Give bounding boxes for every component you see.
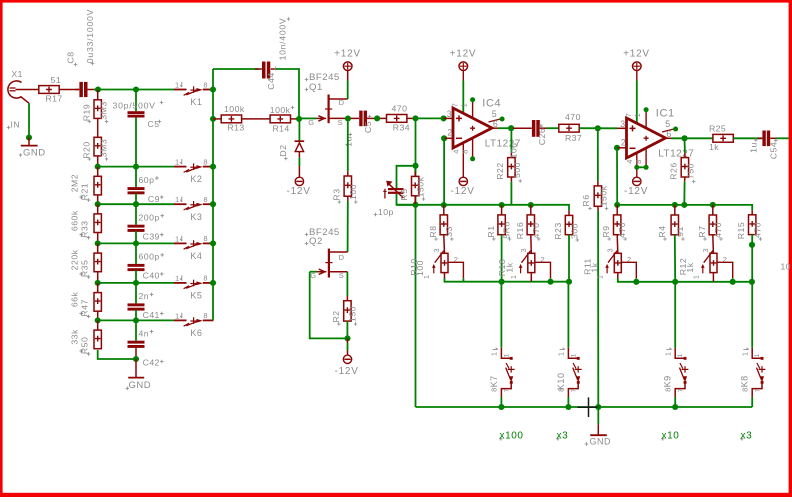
svg-text:8: 8: [203, 311, 207, 320]
svg-text:R19: R19: [81, 104, 91, 121]
svg-text:150: 150: [348, 306, 358, 322]
svg-text:8: 8: [490, 388, 499, 392]
resistor R6 150k: [597, 128, 599, 181]
svg-text:R25: R25: [709, 123, 726, 133]
wire cap to R34: [373, 117, 387, 119]
relay contact K9: [675, 348, 685, 359]
svg-text:8: 8: [203, 195, 207, 204]
relay contact K6: [174, 319, 187, 321]
wire attenuator bus vertical: [212, 69, 214, 320]
junction: [633, 279, 639, 285]
resistor R20 3M3: [97, 118, 99, 137]
wire R10 wiper: [448, 262, 463, 278]
junction: [499, 279, 505, 285]
IC1 pin8 link: [645, 148, 647, 167]
svg-text:C26: C26: [537, 128, 547, 145]
svg-text:100k: 100k: [270, 105, 291, 115]
svg-text:60p: 60p: [139, 175, 155, 185]
svg-text:470: 470: [752, 222, 762, 238]
resistor R5 150k: [414, 166, 416, 172]
svg-text:C5: C5: [363, 121, 373, 133]
wire branch to K9: [674, 282, 676, 348]
junction: [749, 242, 755, 248]
wire R25 to C54: [733, 137, 762, 139]
supply -12V (D2): [295, 177, 303, 185]
svg-text:Q2: Q2: [309, 236, 323, 247]
svg-text:7: 7: [504, 388, 511, 392]
svg-text:100: 100: [415, 260, 425, 276]
wire R37 to IC1: [579, 127, 617, 129]
svg-text:C5: C5: [148, 119, 160, 129]
svg-text:10: 10: [781, 262, 791, 272]
svg-text:R50: R50: [80, 337, 90, 354]
svg-text:R2: R2: [331, 310, 341, 322]
svg-text:IN: IN: [11, 120, 21, 130]
svg-text:8: 8: [634, 160, 643, 164]
svg-text:7: 7: [450, 103, 459, 107]
svg-text:30p/500V: 30p/500V: [113, 101, 156, 111]
junction: [441, 202, 447, 208]
junction: [498, 404, 504, 410]
junction: [133, 356, 139, 362]
IC4 pin8 stub: [472, 138, 474, 159]
wire feedback bus right: [617, 205, 752, 210]
svg-text:1: 1: [557, 352, 566, 356]
junction: [412, 115, 418, 121]
junction: [634, 165, 639, 170]
svg-text:470: 470: [392, 104, 408, 114]
svg-text:4: 4: [451, 150, 460, 154]
wire R9 to R11: [616, 235, 619, 254]
svg-text:R6: R6: [581, 194, 591, 206]
resistor R17 51: [39, 86, 59, 94]
wire node to trimmer network: [415, 118, 417, 407]
svg-text:100k: 100k: [224, 104, 245, 114]
svg-text:R47: R47: [80, 299, 90, 316]
capacitor C5 1u coupling: [351, 117, 360, 119]
svg-text:D2: D2: [278, 144, 288, 156]
wire IC4 -12V: [462, 143, 464, 177]
svg-text:150k: 150k: [416, 176, 426, 197]
junction R22 top: [508, 125, 514, 131]
svg-text:C8: C8: [66, 51, 76, 63]
wire trimcap bottom: [397, 194, 416, 205]
svg-text:K1: K1: [190, 97, 202, 107]
junction: [730, 279, 736, 285]
relay contact K1: [174, 89, 187, 91]
svg-text:1: 1: [175, 158, 179, 167]
wire R16 to R18: [530, 235, 533, 254]
label x100: [499, 437, 503, 441]
svg-text:470: 470: [713, 222, 723, 238]
svg-text:R17: R17: [46, 94, 63, 104]
svg-text:8: 8: [203, 274, 207, 283]
svg-text:8: 8: [460, 150, 469, 154]
wire R12 wiper: [717, 262, 733, 278]
svg-text:8: 8: [740, 388, 749, 392]
svg-text:1: 1: [598, 275, 605, 279]
relay contact K8: [752, 348, 762, 359]
capacitor C8 0u33/1000V: [59, 89, 79, 91]
svg-text:C39: C39: [143, 232, 160, 242]
svg-text:C40: C40: [143, 271, 160, 281]
svg-text:8: 8: [203, 157, 207, 166]
supply -12V (Q2): [343, 355, 351, 363]
svg-text:x10: x10: [662, 431, 680, 442]
transistor Q1 BF245: [328, 95, 330, 124]
wire top attenuator row: [98, 89, 174, 91]
svg-text:470: 470: [531, 223, 541, 239]
svg-text:5: 5: [665, 119, 670, 129]
resistor R47 66k: [97, 283, 99, 293]
svg-text:1: 1: [663, 352, 672, 356]
junction: [565, 404, 571, 410]
svg-text:R7: R7: [697, 225, 707, 237]
svg-text:-12V: -12V: [287, 186, 311, 197]
resistor R1 5R6: [501, 205, 503, 215]
relay contact K3: [174, 203, 187, 205]
trimmer R18 1k: [528, 253, 535, 272]
junction: [95, 280, 101, 286]
junction IC4 pin3: [441, 115, 447, 121]
svg-text:33: 33: [444, 226, 454, 237]
wire R11 bottom to segment: [617, 273, 619, 278]
wire row K4: [98, 242, 174, 244]
svg-text:G: G: [308, 118, 314, 127]
trimmer capacitor 10p: [388, 188, 404, 190]
resistor R25 1k: [713, 134, 733, 142]
resistor R15 470: [751, 210, 753, 215]
junction: [614, 202, 620, 208]
op-amp IC4 LT1227: [453, 108, 492, 148]
svg-text:1: 1: [740, 352, 749, 356]
wire R34 to IC4 +input: [407, 117, 416, 119]
diode D2: [298, 119, 300, 141]
label x10: [661, 437, 665, 441]
svg-text:7: 7: [678, 388, 685, 392]
junction: [412, 202, 418, 208]
svg-text:1: 1: [175, 195, 179, 204]
svg-text:R9: R9: [601, 225, 611, 237]
junction: [210, 164, 216, 170]
wire R14 to node: [291, 118, 300, 120]
junction IC1 pin2: [614, 145, 620, 151]
svg-text:GND: GND: [23, 148, 46, 159]
wire bottom ground bus: [416, 406, 753, 408]
wire IC1 output: [666, 137, 672, 139]
junction: [672, 404, 678, 410]
svg-text:51: 51: [51, 75, 62, 85]
wire R7 to R12: [712, 235, 715, 254]
label x3 right: [740, 437, 744, 441]
svg-text:C41: C41: [143, 310, 160, 320]
svg-text:2M2: 2M2: [70, 174, 80, 192]
svg-text:-12V: -12V: [624, 186, 648, 197]
svg-text:R26: R26: [669, 162, 679, 179]
junction IC4 pin2: [441, 135, 447, 141]
wire IC1 pin3: [617, 127, 627, 129]
resistor R7 470: [712, 205, 714, 215]
svg-text:R20: R20: [81, 141, 91, 158]
svg-text:1k: 1k: [589, 262, 599, 272]
svg-text:0u33/1000V: 0u33/1000V: [85, 9, 95, 63]
svg-text:2: 2: [447, 128, 452, 138]
svg-text:3: 3: [521, 248, 528, 252]
svg-text:1: 1: [754, 353, 761, 357]
svg-text:R33: R33: [80, 220, 90, 237]
svg-text:-12V: -12V: [335, 366, 359, 377]
svg-text:D: D: [339, 98, 345, 107]
svg-text:x3: x3: [557, 431, 569, 442]
junction: [595, 404, 601, 410]
svg-text:66k: 66k: [70, 291, 80, 307]
ground GND attenuator: [135, 359, 137, 377]
svg-text:S: S: [339, 271, 344, 280]
svg-text:10p: 10p: [378, 207, 394, 217]
svg-text:2: 2: [621, 138, 626, 148]
wire IC4 pin3: [444, 117, 453, 119]
resistor R14 100k: [270, 115, 290, 123]
svg-text:R22: R22: [495, 162, 505, 179]
connector X1: [8, 81, 22, 98]
capacitor C5 30p/500V: [135, 90, 137, 112]
svg-text:1: 1: [460, 103, 469, 107]
junction: [499, 202, 505, 208]
svg-text:K6: K6: [190, 328, 202, 338]
resistor R16 470: [530, 205, 532, 215]
capacitor C42 4n: [135, 320, 137, 340]
svg-text:1: 1: [693, 275, 700, 279]
junction: [133, 280, 139, 286]
resistor R22 500: [510, 128, 512, 153]
svg-text:10n/400V: 10n/400V: [278, 18, 288, 61]
svg-text:1: 1: [633, 113, 642, 117]
junction: [133, 317, 139, 323]
junction: [133, 240, 139, 246]
junction: [210, 280, 216, 286]
svg-text:R21: R21: [80, 183, 90, 200]
junction R6 tap: [595, 125, 601, 131]
junction: [210, 240, 216, 246]
svg-text:300: 300: [569, 223, 579, 239]
svg-text:C9: C9: [148, 194, 160, 204]
svg-text:K10: K10: [556, 373, 566, 391]
wire R4 to segment: [674, 235, 676, 282]
wire R3 to Q2 drain: [347, 196, 349, 201]
svg-text:7: 7: [571, 388, 578, 392]
svg-text:R3: R3: [331, 188, 341, 200]
svg-text:7: 7: [755, 388, 762, 392]
svg-text:1: 1: [511, 275, 518, 279]
junction: [528, 202, 534, 208]
resistor R34 470: [387, 115, 407, 123]
svg-text:8: 8: [557, 388, 566, 392]
svg-text:C42: C42: [143, 358, 160, 368]
wire R22 to bus: [510, 182, 512, 205]
svg-text:K8: K8: [740, 375, 750, 387]
svg-text:C54: C54: [768, 142, 778, 159]
svg-text:K7: K7: [489, 375, 499, 387]
svg-text:K4: K4: [190, 251, 202, 261]
wire R15 down: [751, 235, 753, 282]
border frame: [0, 0, 792, 3]
capacitor C44 10n/400V: [255, 68, 262, 70]
resistor R33 660k: [97, 204, 99, 214]
svg-text:220k: 220k: [70, 249, 80, 270]
wire R23 branch to K10: [567, 282, 569, 348]
svg-text:3: 3: [447, 109, 452, 119]
svg-text:660k: 660k: [70, 210, 80, 231]
wire C26 to R37: [547, 127, 560, 129]
label IN: [7, 126, 11, 130]
resistor R2 150: [346, 272, 348, 296]
resistor R23 300: [568, 211, 570, 216]
junction: [672, 202, 678, 208]
svg-text:R15: R15: [736, 222, 746, 239]
wire C8 to node: [94, 89, 98, 91]
junction: [95, 317, 101, 323]
wire R10 bottom: [444, 273, 446, 278]
svg-text:GND: GND: [129, 380, 152, 391]
resistor R13 100k: [213, 118, 221, 120]
svg-text:2n: 2n: [139, 291, 150, 301]
junction: [210, 86, 216, 92]
svg-text:X1: X1: [12, 69, 23, 79]
supply +12V (IC4): [459, 62, 468, 71]
ground GND main: [578, 397, 600, 417]
wire row K2: [98, 166, 174, 168]
svg-text:1: 1: [175, 81, 179, 90]
svg-text:R34: R34: [393, 122, 410, 132]
svg-text:K5: K5: [190, 291, 202, 301]
svg-text:x100: x100: [500, 431, 524, 442]
relay contact K10: [568, 348, 578, 359]
wire row K6: [98, 319, 174, 321]
svg-text:G: G: [310, 271, 316, 280]
junction R13 tap: [210, 116, 216, 122]
svg-text:R37: R37: [565, 133, 582, 143]
junction: [95, 86, 101, 92]
wire IC4 +12V: [462, 81, 464, 114]
junction: [710, 202, 716, 208]
svg-text:3: 3: [620, 119, 625, 129]
op-amp IC1 LT1227: [627, 118, 666, 158]
resistor R8 33: [443, 205, 445, 215]
resistor R19 3M3: [97, 90, 99, 100]
wire R18 wiper: [535, 262, 551, 278]
junction R26 top: [681, 135, 687, 141]
resistor R37 470: [559, 124, 579, 132]
svg-text:+12V: +12V: [450, 48, 477, 59]
resistor R21 2M2: [97, 167, 99, 177]
resistor R26 750: [684, 138, 686, 153]
svg-text:3: 3: [434, 248, 441, 252]
junction: [749, 279, 755, 285]
capacitor C40 600p: [135, 243, 137, 264]
junction: [210, 201, 216, 207]
svg-text:500: 500: [512, 162, 522, 178]
wire IC4 pin2 to bus: [443, 138, 445, 205]
junction: [95, 201, 101, 207]
svg-text:IC4: IC4: [482, 97, 501, 109]
svg-text:K9: K9: [663, 375, 673, 387]
junction gate node: [296, 116, 302, 122]
junction Q1 source: [345, 115, 351, 121]
junction: [566, 279, 572, 285]
wire Q2 gate loop: [310, 272, 348, 339]
svg-text:GND: GND: [590, 437, 612, 447]
relay contact K7: [501, 348, 511, 359]
capacitor C9 60p: [135, 167, 137, 188]
wire R13-R14: [242, 118, 270, 120]
svg-text:x3: x3: [741, 431, 753, 442]
capacitor C54 1u: [758, 137, 763, 139]
wire row K5: [98, 282, 174, 284]
svg-text:S: S: [338, 118, 343, 127]
wire IC4 output: [492, 127, 498, 129]
junction: [95, 240, 101, 246]
svg-text:8: 8: [203, 80, 207, 89]
svg-text:3M3: 3M3: [99, 139, 109, 157]
svg-text:R1: R1: [486, 225, 496, 237]
relay contact K4: [174, 242, 187, 244]
svg-text:33k: 33k: [70, 329, 80, 345]
svg-text:1k: 1k: [505, 262, 515, 272]
trimmer R10 100: [441, 253, 448, 272]
wire IC1 +12V: [636, 81, 638, 124]
resistor R3 100: [347, 122, 349, 172]
svg-text:150k: 150k: [599, 185, 609, 206]
svg-text:4n: 4n: [139, 328, 150, 338]
svg-text:1: 1: [424, 275, 431, 279]
svg-text:R8: R8: [428, 225, 438, 237]
capacitor C41 2n: [135, 283, 137, 304]
svg-text:10u: 10u: [509, 143, 519, 159]
svg-text:1: 1: [677, 353, 684, 357]
wire D2 to -12V: [298, 152, 300, 158]
svg-text:R14: R14: [273, 123, 290, 133]
wire R6 to bottom bus: [597, 211, 599, 407]
trimmer R11 1k: [614, 253, 621, 272]
svg-text:1: 1: [175, 311, 179, 320]
svg-text:8: 8: [663, 388, 672, 392]
wire Q1 drain to +12V: [347, 81, 349, 100]
svg-text:1u: 1u: [748, 142, 758, 153]
svg-text:4: 4: [625, 160, 634, 164]
junction: [133, 201, 139, 207]
wire shield to ground: [28, 103, 30, 137]
wire R26 to bus: [683, 182, 685, 205]
svg-text:IC1: IC1: [656, 107, 675, 119]
junction: [547, 279, 553, 285]
wire IC1 pin2 to bus: [616, 148, 618, 205]
svg-text:3M3: 3M3: [99, 101, 109, 119]
wire R23 to segment: [568, 235, 570, 282]
svg-text:1: 1: [175, 274, 179, 283]
svg-text:1k: 1k: [709, 142, 719, 152]
svg-text:+12V: +12V: [623, 48, 650, 59]
svg-text:+12V: +12V: [334, 48, 361, 59]
svg-text:R35: R35: [80, 260, 90, 277]
wire R1 branch to K7: [500, 282, 502, 348]
svg-text:1: 1: [490, 352, 499, 356]
junction: [26, 134, 32, 140]
wire R18 bottom: [530, 273, 532, 282]
wire R11 wiper: [621, 262, 636, 278]
svg-text:91: 91: [675, 226, 685, 237]
junction: [412, 163, 418, 169]
svg-text:1k: 1k: [685, 262, 695, 272]
